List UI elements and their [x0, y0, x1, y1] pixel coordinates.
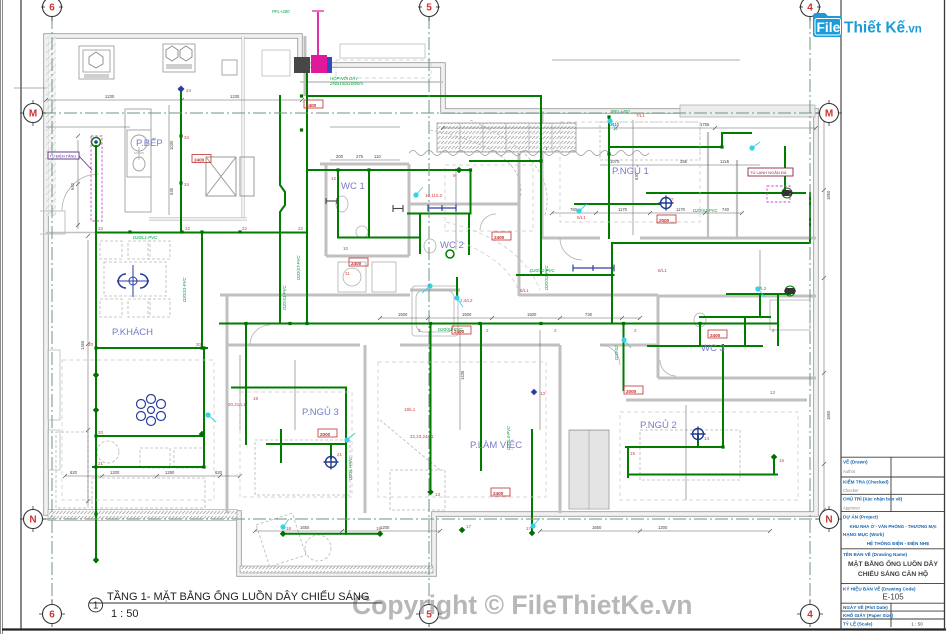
- svg-text:1465: 1465: [80, 340, 85, 350]
- svg-text:D20/ST-PVC: D20/ST-PVC: [296, 255, 301, 280]
- svg-text:18/L1: 18/L1: [404, 407, 416, 412]
- svg-text:13: 13: [540, 391, 546, 396]
- svg-text:9: 9: [453, 173, 456, 178]
- svg-text:TỦ ĐIỆN TẦNG: TỦ ĐIỆN TẦNG: [50, 153, 77, 158]
- exterior wall outline: [46, 36, 816, 574]
- svg-text:5/L1: 5/L1: [577, 215, 586, 220]
- sheet frame left border: [20, 0, 22, 630]
- dining table dashed: [100, 241, 170, 317]
- svg-text:250x150x100mm: 250x150x100mm: [329, 81, 363, 86]
- svg-text:620: 620: [215, 470, 223, 475]
- svg-text:21: 21: [98, 461, 104, 466]
- NGU2 top wall: [626, 399, 807, 402]
- label box TU LANH: [748, 168, 793, 176]
- living/NGU3 wall: [226, 295, 229, 513]
- crosshair target NGU1: [659, 196, 674, 211]
- svg-text:TỶ LỆ (Scale): TỶ LỆ (Scale): [843, 620, 873, 627]
- LAMVIEC desk dashed: [390, 470, 445, 510]
- svg-text:22: 22: [185, 226, 191, 231]
- svg-text:Approver: Approver: [843, 506, 861, 511]
- interior partition kitchen right wall: [40, 36, 816, 513]
- svg-text:1230: 1230: [230, 94, 240, 99]
- svg-text:2: 2: [634, 328, 637, 333]
- svg-text:20: 20: [98, 430, 104, 435]
- svg-text:WC 3: WC 3: [701, 343, 725, 354]
- ceiling fan symbol: [117, 265, 149, 297]
- small green labels: [133, 9, 718, 480]
- svg-text:1 : 50: 1 : 50: [111, 608, 139, 620]
- svg-text:1850: 1850: [826, 190, 831, 200]
- svg-text:1650: 1650: [592, 525, 602, 530]
- dimension ticks: [44, 98, 826, 533]
- svg-text:20: 20: [196, 342, 202, 347]
- wardrobe hatch top (closet): [437, 123, 576, 152]
- svg-text:D20/S1-PVC: D20/S1-PVC: [182, 277, 187, 302]
- svg-text:34: 34: [184, 182, 190, 187]
- chandelier flower: [137, 395, 166, 426]
- entry step edge: [40, 211, 65, 234]
- svg-text:6/L1: 6/L1: [520, 288, 529, 293]
- fridge: [79, 46, 114, 79]
- WC2 walls: [410, 153, 519, 296]
- svg-text:535: 535: [169, 187, 174, 195]
- svg-text:18: 18: [376, 526, 382, 531]
- wire corridor end riser: [777, 294, 779, 345]
- wire WC3: [648, 294, 790, 346]
- crosshair target NGU3: [324, 455, 339, 470]
- svg-text:2400: 2400: [194, 157, 205, 162]
- svg-text:1650: 1650: [300, 525, 310, 530]
- wire NGU2 riser: [623, 324, 625, 391]
- purple dashed box NGU1 fridge: [767, 186, 790, 202]
- green circle light kitchen: [92, 138, 101, 147]
- wire kitchen vertical x182: [180, 89, 182, 233]
- svg-text:255: 255: [680, 159, 688, 164]
- magenta junction box: [311, 55, 327, 73]
- svg-text:22,23,24/L1: 22,23,24/L1: [410, 434, 434, 439]
- svg-text:P.NGỦ 1: P.NGỦ 1: [612, 165, 649, 177]
- door arcs: [62, 174, 676, 376]
- svg-text:1170: 1170: [676, 207, 686, 212]
- svg-text:7: 7: [671, 197, 674, 202]
- svg-text:16: 16: [779, 458, 785, 463]
- wire WC2: [457, 214, 469, 297]
- WC fixtures: [336, 196, 810, 336]
- blue box: [327, 57, 332, 73]
- svg-text:Copyright © FileThietKe.vn: Copyright © FileThietKe.vn: [352, 590, 693, 620]
- sheet margin double line left edge: [1, 0, 3, 634]
- svg-text:2,4/L2: 2,4/L2: [460, 298, 473, 303]
- svg-text:E-105: E-105: [882, 593, 904, 602]
- wire lam viec: [431, 324, 482, 491]
- svg-text:D20/S2-PVC: D20/S2-PVC: [693, 208, 718, 213]
- interior partition kitchen/living wall: [46, 232, 307, 234]
- svg-text:P.LÀM VIỆC: P.LÀM VIỆC: [470, 440, 522, 451]
- svg-text:20,21/L1: 20,21/L1: [228, 402, 246, 407]
- svg-text:2400: 2400: [306, 103, 317, 108]
- svg-text:TẦNG 1- MẶT BẰNG ỐNG LUỒN DÂY: TẦNG 1- MẶT BẰNG ỐNG LUỒN DÂY CHIẾU SÁNG: [107, 589, 369, 603]
- sofa set dashed: [56, 120, 740, 567]
- svg-text:19: 19: [253, 396, 259, 401]
- svg-text:2400: 2400: [710, 333, 721, 338]
- svg-text:2: 2: [554, 328, 557, 333]
- svg-text:22: 22: [98, 226, 104, 231]
- WC1 box walls: [320, 164, 409, 256]
- svg-text:D20/S1-PVC: D20/S1-PVC: [282, 285, 287, 310]
- svg-text:275: 275: [356, 154, 364, 159]
- svg-text:4: 4: [807, 610, 813, 621]
- svg-text:34: 34: [184, 135, 190, 140]
- svg-text:1290: 1290: [165, 470, 175, 475]
- svg-text:1850: 1850: [826, 410, 831, 420]
- svg-text:CHIẾU SÁNG CĂN HỘ: CHIẾU SÁNG CĂN HỘ: [858, 568, 928, 578]
- svg-text:D20/L1-PVC: D20/L1-PVC: [133, 235, 158, 240]
- svg-text:8/L1: 8/L1: [658, 268, 667, 273]
- svg-text:2000: 2000: [320, 432, 331, 437]
- wire NGU1: [575, 117, 805, 238]
- svg-text:MẶT BẰNG ỐNG LUỒN DÂY: MẶT BẰNG ỐNG LUỒN DÂY: [848, 558, 938, 568]
- interior partition kitchen bottom wall: [149, 217, 247, 220]
- NGU3 bed dashed: [255, 440, 350, 495]
- svg-text:1500: 1500: [462, 312, 472, 317]
- wire NGU3: [232, 324, 346, 534]
- svg-text:TÊN BẢN VẼ (Drawing Name): TÊN BẢN VẼ (Drawing Name): [843, 550, 908, 557]
- svg-text:1200: 1200: [658, 525, 668, 530]
- title block left border: [840, 0, 842, 630]
- wall band top-right: [680, 105, 815, 117]
- svg-text:14: 14: [704, 436, 710, 441]
- svg-text:D20/S2-PVC: D20/S2-PVC: [530, 268, 555, 273]
- svg-text:1500: 1500: [527, 312, 537, 317]
- insulation zigzag over WC1: [409, 151, 649, 156]
- cooktop: [163, 44, 195, 72]
- wire balcony: [283, 430, 532, 534]
- view title: [89, 589, 382, 620]
- WC3 walls: [658, 296, 816, 378]
- svg-text:4: 4: [807, 3, 813, 14]
- wire v x612: [611, 243, 613, 324]
- svg-text:Thiết Kế.vn: Thiết Kế.vn: [844, 20, 922, 37]
- wire h y275: [517, 274, 614, 276]
- small cyan marks: [205, 118, 765, 529]
- svg-text:NGÀY VẼ (Plot Date): NGÀY VẼ (Plot Date): [843, 604, 888, 610]
- svg-text:10,11/L2: 10,11/L2: [425, 193, 443, 198]
- GREEN WIRING: [93, 73, 810, 562]
- wire living vertical x96: [95, 146, 97, 562]
- svg-text:200: 200: [336, 154, 344, 159]
- svg-text:1070: 1070: [610, 159, 620, 164]
- svg-text:WC 1: WC 1: [341, 181, 365, 192]
- svg-text:D20/S2-PVC: D20/S2-PVC: [544, 265, 549, 290]
- crosshair target NGU2: [691, 427, 706, 442]
- svg-text:P.NGỦ 3: P.NGỦ 3: [302, 406, 339, 418]
- gridline column 4: [809, 16, 811, 604]
- wire main horizontal y170: [307, 169, 471, 171]
- svg-text:KÝ HIỆU BẢN VẼ (Drawing Code): KÝ HIỆU BẢN VẼ (Drawing Code): [843, 585, 916, 592]
- svg-text:2000: 2000: [626, 389, 637, 394]
- wire h y243 NGU1 bottom: [612, 242, 810, 244]
- svg-text:CHỦ TRÌ (Xác nhận bản vẽ): CHỦ TRÌ (Xác nhận bản vẽ): [843, 495, 903, 502]
- svg-text:1: 1: [93, 601, 99, 612]
- wire living mid vertical: [201, 233, 203, 349]
- svg-text:11: 11: [345, 271, 350, 276]
- svg-text:6: 6: [49, 3, 55, 14]
- svg-text:TỦ LẠNH NGĂN ĐÁ: TỦ LẠNH NGĂN ĐÁ: [750, 170, 787, 175]
- svg-text:2: 2: [418, 328, 421, 333]
- wire living loop: [93, 348, 207, 467]
- svg-text:22: 22: [242, 226, 248, 231]
- laundry appliances below WC1: [338, 262, 396, 292]
- svg-text:N: N: [29, 515, 36, 526]
- gridline column 5: [428, 16, 430, 604]
- wire h y232: [96, 232, 307, 234]
- svg-text:2: 2: [486, 328, 489, 333]
- svg-text:15: 15: [630, 451, 636, 456]
- black door frame bars: [326, 198, 403, 212]
- downlight diamonds: [93, 167, 778, 564]
- logo FileThietKe.vn: [813, 13, 922, 37]
- svg-text:Author: Author: [843, 469, 856, 474]
- svg-text:10: 10: [343, 246, 349, 251]
- svg-text:P.KHÁCH: P.KHÁCH: [112, 327, 153, 338]
- svg-text:18: 18: [286, 526, 292, 531]
- LAMVIEC/NGU2 wall: [559, 345, 562, 513]
- svg-text:Checker: Checker: [843, 488, 859, 493]
- wire junction nodes: [94, 94, 724, 515]
- small red wire number labels: [88, 88, 785, 531]
- kitchen counter: [79, 44, 237, 212]
- svg-text:12: 12: [331, 176, 337, 181]
- svg-text:620: 620: [70, 470, 78, 475]
- NGU1 west dashed ceiling: [445, 165, 533, 231]
- NGU3/LAMVIEC wall: [364, 345, 367, 513]
- shaft box with X: [206, 157, 254, 196]
- svg-text:KIỂM TRA (Checked): KIỂM TRA (Checked): [843, 479, 889, 485]
- svg-text:5: 5: [426, 3, 432, 14]
- interior partition hall shaft right: [304, 36, 307, 96]
- magenta riser line: [294, 11, 332, 73]
- svg-text:KHỔ GIẤY (Paper Size): KHỔ GIẤY (Paper Size): [843, 612, 894, 618]
- corridor top wall: [220, 294, 658, 297]
- dashed ceiling outlines: [62, 60, 798, 500]
- svg-text:12x5: 12x5: [720, 159, 730, 164]
- NGU2 bed dashed: [640, 430, 740, 480]
- svg-text:D20/L+PVC: D20/L+PVC: [348, 456, 353, 480]
- sheet frame right border: [944, 0, 946, 630]
- NGU1 left wall: [541, 111, 544, 238]
- svg-text:1170: 1170: [618, 207, 628, 212]
- svg-text:D20/S1-PVC: D20/S1-PVC: [438, 327, 463, 332]
- wire WC1 loop: [338, 170, 471, 253]
- wall band left of building top: [46, 36, 56, 216]
- wire corridor riser x541: [540, 96, 542, 275]
- svg-text:HỆ THỐNG ĐIỆN - ĐIỆN NHẸ: HỆ THỐNG ĐIỆN - ĐIỆN NHẸ: [867, 539, 930, 546]
- svg-text:WC 2: WC 2: [440, 240, 464, 251]
- wire corridor trunk y323.5: [220, 323, 778, 325]
- svg-text:M: M: [29, 109, 37, 120]
- hall storage rects: [48, 44, 425, 470]
- balcony sofa tilted: [256, 513, 306, 567]
- wire risers down corridor: [280, 96, 307, 324]
- svg-text:24: 24: [186, 88, 192, 93]
- svg-text:2400: 2400: [493, 491, 504, 496]
- hall lower edge: [300, 81, 443, 83]
- svg-text:2400: 2400: [494, 235, 505, 240]
- wire h y161: [470, 160, 541, 162]
- NGU1 closet wall: [708, 132, 737, 238]
- gridline column 6: [51, 16, 53, 604]
- corridor bottom wall: [227, 344, 658, 347]
- wire NGU2 loop: [626, 345, 777, 477]
- svg-text:1230: 1230: [105, 94, 115, 99]
- svg-text:1435: 1435: [460, 370, 465, 380]
- svg-text:1030: 1030: [169, 140, 174, 150]
- wall hatch band bottom-middle balcony edge: [240, 566, 433, 573]
- hexagon wall light NGU1: [781, 188, 793, 198]
- svg-text:110: 110: [374, 154, 381, 159]
- svg-text:1200: 1200: [110, 470, 120, 475]
- svg-text:1 : 50: 1 : 50: [911, 622, 923, 627]
- svg-text:730: 730: [585, 312, 593, 317]
- svg-text:7/L1: 7/L1: [636, 113, 645, 118]
- hexagon wall light WC3: [784, 286, 796, 296]
- svg-text:13: 13: [770, 390, 776, 395]
- svg-text:HẠNG MỤC (Work): HẠNG MỤC (Work): [843, 532, 884, 537]
- svg-text:P.BẾP: P.BẾP: [136, 138, 163, 149]
- svg-text:D20/S2: D20/S2: [614, 345, 619, 360]
- blue diamond kitchen top: [177, 85, 184, 92]
- svg-text:VẼ (Drawn): VẼ (Drawn): [843, 459, 868, 465]
- wall hatch band bottom-left: [48, 510, 237, 521]
- svg-text:740: 740: [722, 207, 730, 212]
- svg-text:1500: 1500: [398, 312, 408, 317]
- blue fixture bars: [428, 205, 614, 272]
- red 2400 boxes: [192, 100, 727, 496]
- svg-text:DỰ ÁN (Project): DỰ ÁN (Project): [843, 514, 878, 520]
- NGU1 bed dashed: [600, 122, 700, 160]
- svg-text:2000: 2000: [659, 218, 670, 223]
- gridline row N: [43, 518, 819, 520]
- DIMENSIONS: [14, 60, 824, 531]
- svg-text:P.NGỦ 2: P.NGỦ 2: [640, 419, 677, 431]
- wire top horizontal y96: [307, 95, 541, 97]
- svg-text:N: N: [825, 515, 832, 526]
- purple dashed panel zone entry: [91, 136, 102, 221]
- svg-text:20: 20: [88, 342, 94, 347]
- label box TU DIEN: [48, 152, 79, 159]
- svg-text:22: 22: [298, 226, 304, 231]
- svg-text:PFL+200: PFL+200: [272, 9, 290, 14]
- svg-text:M: M: [825, 109, 833, 120]
- svg-text:KHU NHÀ Ở - VĂN PHÒNG - THƯƠNG: KHU NHÀ Ở - VĂN PHÒNG - THƯƠNG MẠI: [850, 524, 937, 529]
- wire right edge NGU1: [809, 193, 811, 243]
- gridline row M: [43, 112, 819, 114]
- svg-text:1755: 1755: [700, 122, 710, 127]
- svg-text:1200: 1200: [380, 525, 390, 530]
- wire riser vertical: [306, 73, 308, 170]
- svg-text:17: 17: [466, 524, 472, 529]
- svg-text:2400: 2400: [351, 261, 362, 266]
- NGU1 bottom wall: [542, 237, 816, 240]
- svg-text:6: 6: [49, 610, 55, 621]
- title block: [841, 457, 945, 627]
- svg-text:File: File: [817, 20, 841, 35]
- svg-text:13: 13: [435, 492, 441, 497]
- black pull box: [294, 57, 310, 73]
- svg-text:640: 640: [70, 182, 75, 190]
- svg-text:21: 21: [337, 452, 343, 457]
- wardrobe hatch NGU2: [569, 430, 609, 509]
- sheet frame bottom border: [2, 628, 946, 630]
- svg-text:2: 2: [772, 328, 775, 333]
